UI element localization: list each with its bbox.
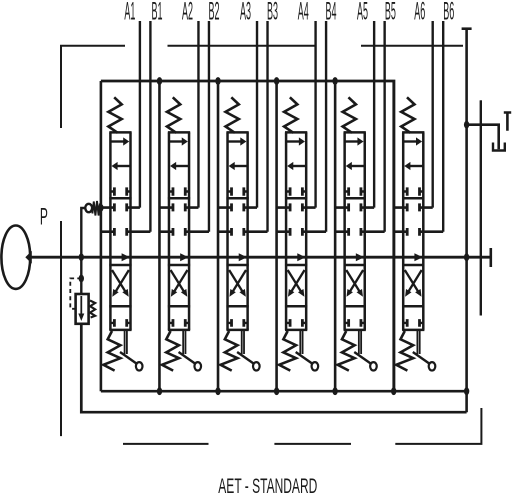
carryover line (480, 100, 482, 315)
tank return line bottom (81, 324, 466, 412)
check valve spring (92, 201, 100, 216)
enclosure boundary left lower (60, 221, 62, 436)
svg-text:AET - STANDARD: AET - STANDARD (218, 475, 317, 498)
svg-text:B1: B1 (152, 0, 163, 25)
svg-text:A1: A1 (124, 0, 135, 25)
enclosure boundary bottom (123, 408, 481, 444)
valve section 4 (277, 21, 327, 391)
svg-text:A5: A5 (357, 0, 368, 25)
svg-text:P: P (40, 204, 48, 231)
check valve riser wire (81, 208, 85, 257)
junction pilot (79, 275, 84, 283)
plug bar top of T line (462, 27, 472, 30)
junction check valve outlet (98, 204, 103, 212)
bottom bus wire (101, 390, 467, 393)
tank line T right vertical (465, 30, 468, 412)
valve section 3 (218, 21, 267, 391)
junction dot P line right (464, 253, 469, 261)
P line end plug bar (489, 248, 492, 267)
relief valve spring (90, 301, 95, 318)
enclosure boundary right (480, 100, 482, 315)
valve section 5 (335, 21, 385, 391)
relief valve drain wire (80, 257, 82, 294)
relief valve pilot dashed line (70, 278, 81, 308)
tank symbol (493, 143, 505, 151)
check valve ball (85, 204, 92, 212)
svg-text:A2: A2 (182, 0, 193, 25)
P supply line (31, 256, 491, 259)
valve section 6 (394, 21, 444, 391)
junction T branch (464, 121, 469, 129)
junction dots bottom bus (157, 387, 470, 395)
junction P to relief (79, 253, 84, 261)
svg-text:A3: A3 (240, 0, 251, 25)
T branch wire (467, 125, 499, 150)
valve section 2 (159, 21, 208, 391)
top bus wire (101, 81, 394, 391)
pump inlet arrow (25, 251, 32, 264)
pump circle (1, 226, 30, 289)
svg-text:B5: B5 (385, 0, 396, 25)
svg-text:A4: A4 (298, 0, 309, 25)
junction dots top bus (157, 77, 338, 85)
svg-text:B6: B6 (443, 0, 454, 25)
relief valve body (76, 294, 89, 324)
label T (504, 113, 511, 131)
relief valve internal arrow (80, 296, 82, 314)
svg-text:A6: A6 (414, 0, 425, 25)
valve section 1 (101, 21, 150, 391)
enclosure boundary top (61, 46, 463, 128)
